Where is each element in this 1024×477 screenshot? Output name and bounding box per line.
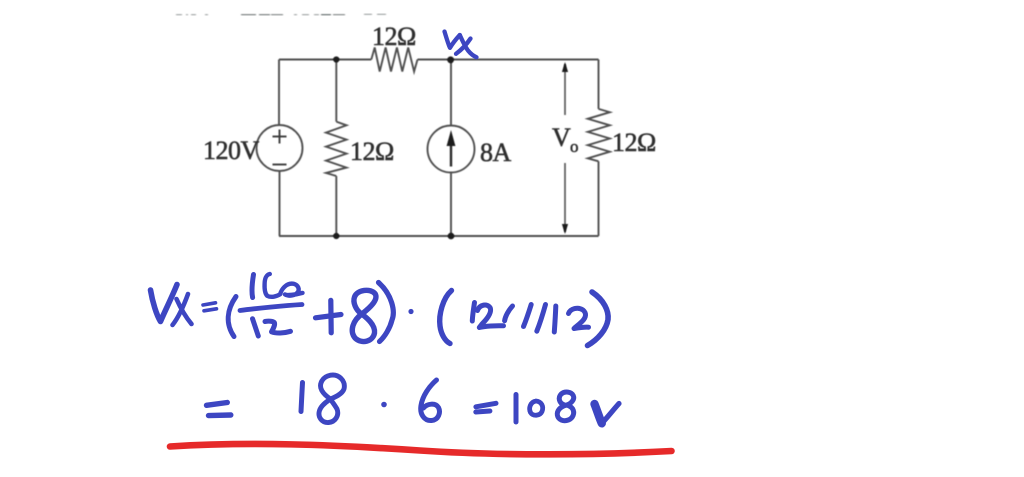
svg-text:8A: 8A	[480, 138, 512, 167]
svg-text:12Ω: 12Ω	[372, 22, 416, 51]
svg-text:12Ω: 12Ω	[350, 137, 394, 166]
svg-text:o: o	[570, 137, 579, 156]
svg-text:V: V	[552, 123, 571, 152]
svg-text:12Ω: 12Ω	[612, 128, 656, 157]
svg-text:120V: 120V	[203, 136, 260, 165]
